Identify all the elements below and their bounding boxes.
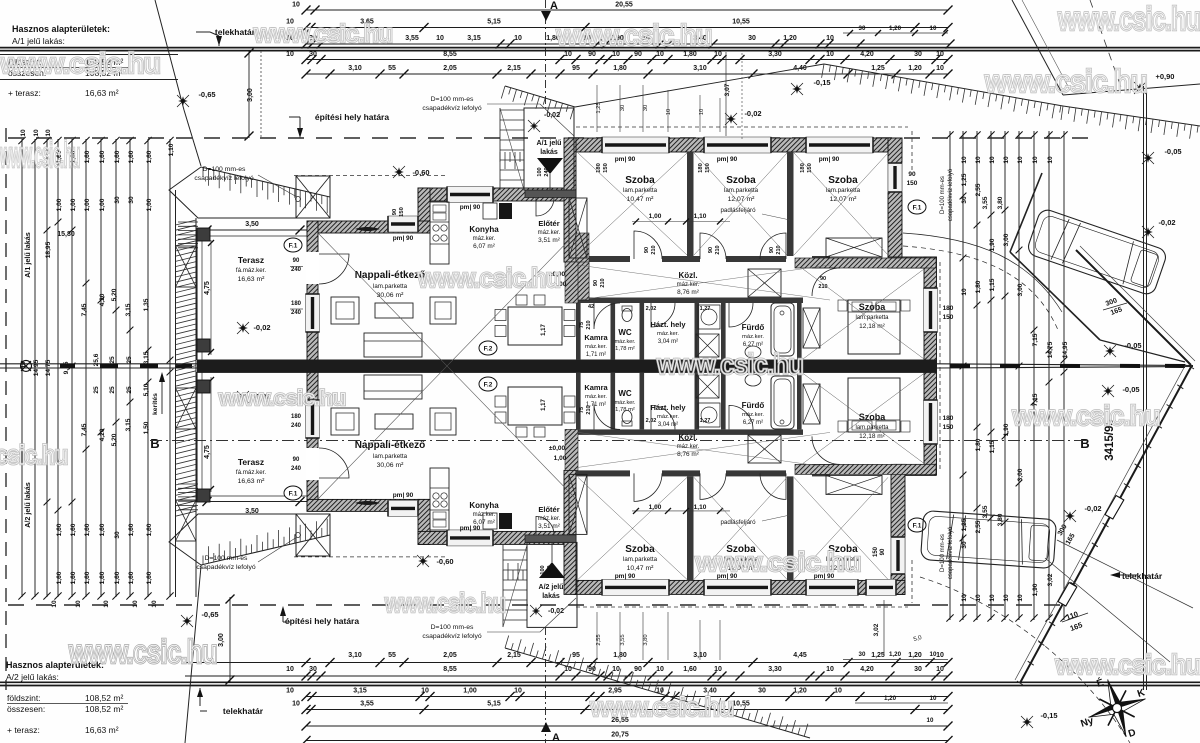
spot elevation -0,60 top xyxy=(394,167,404,177)
svg-text:16,63 m²: 16,63 m² xyxy=(85,725,119,735)
svg-text:180: 180 xyxy=(291,414,302,420)
attic ladder box bottom xyxy=(748,435,781,463)
svg-text:1,60: 1,60 xyxy=(128,571,135,584)
svg-text:A: A xyxy=(552,732,560,743)
svg-text:1,60: 1,60 xyxy=(128,523,135,536)
window bottom wall room1 xyxy=(602,579,669,595)
porch canopy teeth columns top xyxy=(500,152,520,169)
closet X porch bottom xyxy=(569,474,587,534)
section marker A bottom xyxy=(545,627,547,743)
svg-text:180: 180 xyxy=(291,301,302,307)
svg-text:10: 10 xyxy=(514,35,522,42)
svg-text:10: 10 xyxy=(826,666,834,673)
svg-text:10: 10 xyxy=(286,666,294,673)
svg-text:1,00: 1,00 xyxy=(99,198,106,211)
svg-text:1,00: 1,00 xyxy=(84,198,91,211)
exterior wall kitchen bottom xyxy=(418,531,576,544)
svg-text:A/1 jelű: A/1 jelű xyxy=(537,140,562,147)
svg-text:3,50: 3,50 xyxy=(245,508,259,515)
svg-text:F.1: F.1 xyxy=(289,491,298,498)
svg-text:3,80: 3,80 xyxy=(997,196,1004,209)
door arc furdo bottom xyxy=(729,405,753,429)
svg-text:A/2 jelű lakás:: A/2 jelű lakás: xyxy=(6,672,59,682)
porch rear thin wall bottom xyxy=(525,535,576,543)
svg-text:240: 240 xyxy=(544,167,550,176)
embankment band top-right 2 xyxy=(1063,106,1200,126)
svg-text:-0,02: -0,02 xyxy=(1158,218,1175,227)
door arc furdo top xyxy=(729,303,753,327)
svg-text:1,15: 1,15 xyxy=(989,440,996,453)
svg-text:10: 10 xyxy=(961,288,968,296)
svg-text:1,20: 1,20 xyxy=(884,695,897,702)
svg-text:10,47 m²: 10,47 m² xyxy=(627,565,655,572)
vertical dim 3,07 near entry xyxy=(725,52,727,136)
svg-text:10: 10 xyxy=(1003,156,1010,164)
dimension chain bottom row6 20,75 xyxy=(306,740,948,742)
svg-text:1,25: 1,25 xyxy=(871,65,885,72)
eaves dashed left roof bottom xyxy=(294,556,448,558)
embankment band top-right 1 xyxy=(824,64,1063,106)
terrace steps top-left xyxy=(178,221,198,223)
svg-text:máz.ker.: máz.ker. xyxy=(677,282,700,288)
svg-text:Közl.: Közl. xyxy=(678,271,697,280)
svg-text:3,00: 3,00 xyxy=(1017,468,1024,481)
eaves dashed bottom xyxy=(576,606,908,608)
toilet wc bottom xyxy=(622,411,632,424)
party wall center (solid) xyxy=(197,360,937,373)
door arc hazt bottom xyxy=(651,405,675,429)
party line right segment xyxy=(937,364,1193,366)
embankment band bottom xyxy=(505,648,810,738)
terrace bottom elevation -0,02 xyxy=(238,392,248,402)
svg-text:108,52 m²: 108,52 m² xyxy=(85,693,123,703)
svg-text:F.1: F.1 xyxy=(913,205,922,212)
svg-text:3,15: 3,15 xyxy=(467,35,481,42)
svg-text:12,07 m²: 12,07 m² xyxy=(728,196,756,203)
exterior wall kitchen left lower xyxy=(418,499,430,544)
svg-text:1,60: 1,60 xyxy=(84,571,91,584)
window kitchen bottom xyxy=(447,530,493,546)
svg-text:±0,00: ±0,00 xyxy=(549,445,566,452)
window bottom wall room3 xyxy=(806,579,858,595)
svg-text:-0,60: -0,60 xyxy=(436,557,453,566)
interior wall room divider 2 bottom xyxy=(787,476,794,580)
svg-text:8,55: 8,55 xyxy=(443,666,457,673)
svg-text:D=100 mm-es: D=100 mm-es xyxy=(940,534,946,572)
svg-text:90: 90 xyxy=(293,457,300,463)
interior wall szoba-right top xyxy=(795,258,936,268)
svg-text:12,18 m²: 12,18 m² xyxy=(859,323,885,330)
svg-text:1,80: 1,80 xyxy=(975,280,982,293)
svg-text:WC: WC xyxy=(618,389,632,398)
spot elevation -0,65 bottom xyxy=(182,616,192,626)
dimension chain top row3 xyxy=(306,43,950,45)
svg-text:12,07 m²: 12,07 m² xyxy=(830,196,858,203)
spot elevation -0,02 right2 xyxy=(1143,227,1153,237)
washer boxes bottom xyxy=(698,403,720,427)
svg-text:180: 180 xyxy=(596,163,602,173)
washbasin bottom xyxy=(745,374,761,386)
svg-text:3,55: 3,55 xyxy=(620,634,626,645)
bubble F.2 center top xyxy=(479,341,497,355)
exterior wall right main xyxy=(924,257,937,475)
entry porch bottom outline xyxy=(527,542,577,627)
door arc room1 top xyxy=(634,231,662,259)
window right wall szoba top xyxy=(924,288,938,332)
svg-text:A/2 jelű lakás: A/2 jelű lakás xyxy=(23,482,32,528)
svg-text:210: 210 xyxy=(818,284,827,290)
svg-text:Kamra: Kamra xyxy=(584,383,608,392)
svg-text:B: B xyxy=(1080,436,1089,451)
svg-text:2,15: 2,15 xyxy=(507,652,521,659)
svg-text:100: 100 xyxy=(537,167,543,176)
window top wall room3 xyxy=(806,137,873,153)
svg-text:4,20: 4,20 xyxy=(860,51,874,58)
svg-text:25: 25 xyxy=(109,356,116,364)
svg-text:240: 240 xyxy=(291,423,302,429)
eaves dashed left roof xyxy=(294,175,448,177)
bubble F.2 center bottom xyxy=(479,377,497,391)
svg-text:1,17: 1,17 xyxy=(541,399,547,411)
svg-text:90: 90 xyxy=(392,209,398,215)
exterior wall top (right section) xyxy=(574,138,902,152)
window bottom-right small xyxy=(866,579,896,595)
svg-text:+0,90: +0,90 xyxy=(1156,72,1175,81)
svg-text:1,60: 1,60 xyxy=(84,523,91,536)
svg-text:4,75: 4,75 xyxy=(204,445,211,459)
svg-text:A/2 jelű: A/2 jelű xyxy=(539,584,564,591)
svg-text:150: 150 xyxy=(873,546,879,557)
svg-text:3,55: 3,55 xyxy=(405,35,419,42)
svg-text:F.2: F.2 xyxy=(484,382,493,389)
svg-text:-0,02: -0,02 xyxy=(1084,504,1101,513)
vertical mini dim lines bottom-right of porch xyxy=(596,612,598,660)
svg-text:2,05: 2,05 xyxy=(443,65,457,72)
svg-text:1,20: 1,20 xyxy=(908,65,922,72)
svg-text:www.csic.hu: www.csic.hu xyxy=(68,634,217,671)
svg-text:pm| 90: pm| 90 xyxy=(819,156,840,163)
terrace top elevation -0,02 xyxy=(238,323,248,333)
svg-text:1,90: 1,90 xyxy=(1003,423,1010,436)
svg-text:1,60: 1,60 xyxy=(70,571,77,584)
svg-text:D=100 mm-es: D=100 mm-es xyxy=(205,555,248,562)
right stack intermediate ticks xyxy=(960,193,967,200)
kitchen flue dark top xyxy=(499,203,512,219)
svg-text:Szoba: Szoba xyxy=(859,302,886,312)
entry porch bottom labels xyxy=(532,607,540,615)
room diagonal X szoba2 bottom xyxy=(694,477,787,579)
svg-text:14,95: 14,95 xyxy=(1062,341,1069,358)
door arc porch-eloter top xyxy=(536,198,554,216)
svg-text:Szoba: Szoba xyxy=(625,175,655,186)
svg-text:1,27: 1,27 xyxy=(700,418,711,424)
svg-text:10: 10 xyxy=(826,51,834,58)
svg-text:F.1: F.1 xyxy=(289,243,298,250)
svg-text:90: 90 xyxy=(588,666,596,673)
window top wall room2 xyxy=(704,137,771,153)
svg-text:-0,02: -0,02 xyxy=(744,109,761,118)
bathtub bottom xyxy=(771,376,794,429)
door arc room3 bottom xyxy=(760,473,786,499)
svg-text:240: 240 xyxy=(291,267,302,273)
svg-text:5,20: 5,20 xyxy=(111,433,118,446)
dimension chain bottom row4 xyxy=(306,709,948,711)
svg-text:építési hely határa: építési hely határa xyxy=(285,616,359,626)
washer boxes top xyxy=(698,305,720,329)
fence gate posts xyxy=(1105,495,1124,519)
svg-text:18,95: 18,95 xyxy=(45,241,52,258)
window nappali bottom xyxy=(388,500,418,516)
svg-text:90: 90 xyxy=(634,666,642,673)
svg-text:csapadékvíz lefolyó: csapadékvíz lefolyó xyxy=(948,168,954,221)
interior walls middle band top-half verticals xyxy=(576,303,581,360)
fence left double line xyxy=(175,190,177,597)
boundary diagonal top-left xyxy=(155,0,184,110)
svg-text:-0,05: -0,05 xyxy=(1164,147,1181,156)
svg-text:10: 10 xyxy=(151,600,158,608)
svg-text:Szoba: Szoba xyxy=(726,175,756,186)
neighbor boundary dashed top-right xyxy=(1090,0,1122,90)
left boundary dashed line xyxy=(5,128,7,690)
room diagonal X szoba2 top xyxy=(694,153,787,255)
terrace window top xyxy=(306,294,319,332)
svg-text:máz.ker.: máz.ker. xyxy=(742,334,764,340)
svg-text:90: 90 xyxy=(880,548,886,555)
svg-text:-0,60: -0,60 xyxy=(412,168,429,177)
svg-text:pm| 90: pm| 90 xyxy=(460,204,481,211)
fence left hatch xyxy=(176,220,197,516)
svg-text:WC: WC xyxy=(618,328,632,337)
svg-text:10: 10 xyxy=(930,25,937,32)
terrace window bottom xyxy=(306,400,319,438)
svg-text:www.csic.hu: www.csic.hu xyxy=(0,48,160,80)
svg-text:3,00: 3,00 xyxy=(1017,283,1024,296)
svg-text:1,25: 1,25 xyxy=(961,173,968,186)
bathtub top xyxy=(771,303,794,356)
svg-text:4,20: 4,20 xyxy=(860,666,874,673)
svg-text:180: 180 xyxy=(698,163,704,173)
svg-text:2,55: 2,55 xyxy=(596,634,602,645)
door arc room3 top xyxy=(760,233,786,259)
dimension chain bottom row1 xyxy=(185,662,948,664)
svg-text:1,60: 1,60 xyxy=(99,571,106,584)
terrace steps bottom-left xyxy=(178,483,198,485)
svg-text:3,55: 3,55 xyxy=(982,505,989,518)
interior wall corridor bottom edge top-half xyxy=(576,298,803,304)
svg-text:1,00: 1,00 xyxy=(649,213,662,220)
eaves dashed top xyxy=(576,126,908,128)
svg-text:D=100 mm-es: D=100 mm-es xyxy=(431,624,474,631)
svg-text:3,50: 3,50 xyxy=(245,221,259,228)
window top wall room1 xyxy=(602,137,669,153)
svg-text:pm| 90: pm| 90 xyxy=(717,156,738,163)
porch canopy teeth columns bottom xyxy=(503,563,523,580)
svg-text:www.csic.hu: www.csic.hu xyxy=(384,588,505,618)
svg-text:4,75: 4,75 xyxy=(204,281,211,295)
svg-text:pm| 90: pm| 90 xyxy=(393,235,414,242)
closet X room3 bottom xyxy=(826,475,882,494)
exterior wall right lower vertical xyxy=(891,464,905,594)
svg-text:csapadékvíz lefolyó: csapadékvíz lefolyó xyxy=(948,526,954,579)
room diagonal X szoba1 top xyxy=(578,153,687,255)
svg-text:1,10: 1,10 xyxy=(694,504,707,511)
svg-text:10: 10 xyxy=(927,717,934,724)
svg-text:8,76 m²: 8,76 m² xyxy=(677,289,699,296)
svg-text:lam.parketta: lam.parketta xyxy=(724,187,759,194)
svg-text:210: 210 xyxy=(776,245,782,254)
svg-text:lakás: lakás xyxy=(542,593,560,600)
svg-text:90: 90 xyxy=(769,247,775,253)
door arc room1 bottom xyxy=(634,473,662,501)
svg-text:www.csic.hu: www.csic.hu xyxy=(417,263,560,293)
window nappali top xyxy=(388,216,418,232)
right dimension stack vertical lines xyxy=(949,131,951,620)
door arc room2 top xyxy=(700,233,726,259)
svg-text:www.csic.hu: www.csic.hu xyxy=(253,20,392,48)
svg-text:10: 10 xyxy=(514,688,522,695)
spot elevation -0,15 top right xyxy=(792,84,802,94)
svg-text:máz.ker.: máz.ker. xyxy=(538,230,561,236)
wall column left of corridor bottom xyxy=(565,429,578,470)
dimension chain top row2 xyxy=(306,27,948,29)
property line telekhatar bottom (double) xyxy=(0,681,1200,683)
svg-text:4,20: 4,20 xyxy=(99,428,106,441)
svg-text:padlásfeljáró: padlásfeljáró xyxy=(720,519,756,526)
svg-text:www.csic.hu: www.csic.hu xyxy=(1012,400,1160,431)
svg-text:3,15: 3,15 xyxy=(143,351,150,364)
closet X room3 top xyxy=(826,238,882,257)
svg-text:1,60: 1,60 xyxy=(99,523,106,536)
kitchen counter bottom xyxy=(430,468,449,530)
compass rose xyxy=(1079,670,1155,743)
door arc wc bottom xyxy=(594,403,620,429)
svg-text:telekhatár: telekhatár xyxy=(223,706,264,716)
svg-text:lakás: lakás xyxy=(540,149,558,156)
svg-text:+ terasz:: + terasz: xyxy=(7,725,40,735)
svg-text:Házt. hely: Házt. hely xyxy=(650,320,686,329)
svg-text:3,51 m²: 3,51 m² xyxy=(538,237,560,244)
car swept path curves bottom xyxy=(1057,540,1193,608)
svg-text:30: 30 xyxy=(859,651,866,658)
closet X szoba-right top xyxy=(803,308,820,348)
svg-text:75: 75 xyxy=(579,322,585,328)
svg-text:1,00: 1,00 xyxy=(70,198,77,211)
svg-text:240: 240 xyxy=(547,565,553,574)
svg-text:fá.máz.ker.: fá.máz.ker. xyxy=(236,267,267,274)
door arc szoba-right bottom xyxy=(812,436,840,464)
svg-text:30: 30 xyxy=(643,105,649,111)
dining table bottom xyxy=(508,387,562,425)
svg-text:Házt. hely: Házt. hely xyxy=(650,403,686,412)
svg-text:1,60: 1,60 xyxy=(70,523,77,536)
svg-text:3,10: 3,10 xyxy=(348,65,362,72)
dimension chain bottom row3 xyxy=(306,696,948,698)
svg-text:16,63 m²: 16,63 m² xyxy=(85,88,119,98)
svg-text:3,02: 3,02 xyxy=(1047,573,1054,586)
svg-text:1,20: 1,20 xyxy=(908,652,922,659)
svg-text:90: 90 xyxy=(634,51,642,58)
door arc room2 bottom xyxy=(700,473,726,499)
svg-text:10: 10 xyxy=(930,651,937,658)
fence diagonal upper (thick) xyxy=(1076,250,1191,365)
svg-text:240: 240 xyxy=(291,310,302,316)
section marker A top xyxy=(545,0,547,108)
svg-text:10: 10 xyxy=(989,594,996,602)
svg-text:1,20: 1,20 xyxy=(889,25,902,32)
svg-text:10: 10 xyxy=(1017,594,1024,602)
svg-text:150: 150 xyxy=(399,207,405,217)
svg-text:3,15: 3,15 xyxy=(353,688,367,695)
terrace door bottom xyxy=(306,448,319,480)
svg-text:www.csic.hu: www.csic.hu xyxy=(556,20,712,52)
svg-text:10: 10 xyxy=(666,109,672,115)
svg-text:építési hely határa: építési hely határa xyxy=(315,112,389,122)
interior wall nappali right xyxy=(576,233,589,300)
svg-text:telekhatár: telekhatár xyxy=(215,27,256,37)
svg-text:-0,02: -0,02 xyxy=(253,323,270,332)
svg-text:1,60: 1,60 xyxy=(146,150,153,163)
svg-text:5,15: 5,15 xyxy=(487,19,501,26)
svg-text:1,60: 1,60 xyxy=(99,150,106,163)
svg-text:1,00: 1,00 xyxy=(554,455,567,462)
toilet wc top xyxy=(622,309,632,322)
svg-text:Terasz: Terasz xyxy=(238,255,264,265)
svg-text:Konyha: Konyha xyxy=(469,501,499,510)
dimension chain bottom row5 26,55 xyxy=(306,725,948,727)
svg-text:F.2: F.2 xyxy=(484,346,493,353)
svg-text:6,27 m²: 6,27 m² xyxy=(743,342,763,348)
svg-text:3,55: 3,55 xyxy=(982,196,989,209)
building limit dashed line bottom xyxy=(8,604,1060,606)
left stack end ticks xyxy=(18,137,25,144)
svg-text:4,45: 4,45 xyxy=(793,652,807,659)
terrace canopy bottom (hatched) xyxy=(169,514,330,565)
vertical dim 3,00 top xyxy=(248,51,250,138)
bubble F.1 terrace top xyxy=(284,238,302,252)
bubble F.1 right top xyxy=(908,200,926,214)
svg-text:100: 100 xyxy=(540,565,546,574)
svg-text:8,55: 8,55 xyxy=(443,51,457,58)
dining table top xyxy=(508,307,562,345)
door dim row top rooms xyxy=(632,221,730,223)
svg-text:máz.ker.: máz.ker. xyxy=(657,331,679,337)
svg-text:Előtér: Előtér xyxy=(538,505,559,514)
property line telekhatar top (double) xyxy=(0,47,1200,49)
svg-text:1,15: 1,15 xyxy=(989,278,996,291)
svg-text:1,60: 1,60 xyxy=(56,571,63,584)
svg-text:30: 30 xyxy=(309,51,317,58)
wall porch-room divider bottom xyxy=(564,470,576,594)
svg-text:Kamra: Kamra xyxy=(584,333,608,342)
svg-text:16,63 m²: 16,63 m² xyxy=(238,276,266,283)
svg-text:1,60: 1,60 xyxy=(114,571,121,584)
left dimension stack vertical lines xyxy=(21,139,23,597)
sofa set nappali bottom xyxy=(331,408,359,435)
svg-text:1,20: 1,20 xyxy=(889,651,902,658)
svg-text:55: 55 xyxy=(388,652,396,659)
spot elevation -0,65 top xyxy=(178,96,188,106)
svg-text:10: 10 xyxy=(1017,156,1024,164)
svg-text:10: 10 xyxy=(975,594,982,602)
svg-text:180: 180 xyxy=(800,163,806,173)
svg-text:30: 30 xyxy=(128,196,135,204)
svg-text:2,02: 2,02 xyxy=(646,306,657,312)
spot elevation -0,15 bottom right xyxy=(1022,717,1032,727)
svg-text:A/1 jelű lakás: A/1 jelű lakás xyxy=(23,232,32,278)
closet X szoba-right bottom xyxy=(803,384,820,424)
svg-text:95: 95 xyxy=(572,65,580,72)
svg-text:www.csic.hu: www.csic.hu xyxy=(984,64,1147,99)
